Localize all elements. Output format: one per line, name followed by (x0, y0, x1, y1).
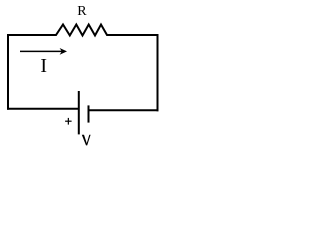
svg-text:I: I (40, 55, 47, 77)
svg-text:R: R (77, 4, 87, 19)
